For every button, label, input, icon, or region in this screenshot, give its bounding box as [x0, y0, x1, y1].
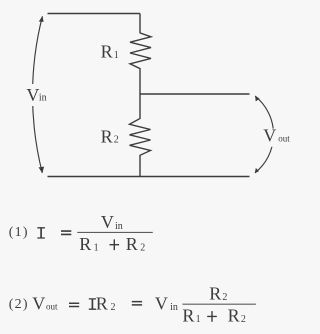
svg-text:R: R: [209, 284, 221, 304]
Vin label mask: [24, 84, 50, 106]
svg-text:2: 2: [241, 314, 246, 325]
Vout label mask: [261, 129, 293, 147]
svg-text:V: V: [101, 212, 114, 232]
svg-text:R: R: [79, 234, 91, 254]
svg-text:out: out: [46, 302, 58, 312]
svg-text:V: V: [32, 293, 45, 313]
resistor R1: [130, 14, 151, 95]
Vin arrowhead bottom: [39, 167, 45, 174]
svg-text:2: 2: [140, 242, 145, 253]
resistor R2: [130, 94, 151, 177]
eq2 equals 2: [132, 302, 142, 305]
label Vout: [263, 126, 290, 146]
eq2 equals 1: [69, 303, 79, 306]
eq2 fraction bar: [182, 303, 256, 305]
Vout arrowhead bottom: [255, 168, 259, 173]
svg-text:V: V: [155, 293, 168, 313]
equation 1: [9, 212, 153, 254]
svg-text:2: 2: [114, 135, 119, 146]
wire top: [48, 13, 141, 15]
svg-text:2: 2: [111, 302, 116, 313]
svg-text:2: 2: [222, 292, 227, 303]
svg-text:R: R: [182, 306, 194, 326]
svg-text:in: in: [170, 302, 178, 313]
label R2: [101, 126, 119, 146]
svg-text:R: R: [96, 293, 108, 313]
label R1: [101, 42, 119, 62]
svg-text:R: R: [126, 234, 138, 254]
svg-text:(2): (2): [9, 297, 29, 312]
svg-text:out: out: [278, 133, 290, 143]
svg-text:R: R: [101, 42, 113, 62]
svg-text:V: V: [263, 126, 276, 146]
svg-text:1: 1: [114, 50, 119, 61]
svg-text:in: in: [39, 93, 47, 104]
svg-text:V: V: [26, 85, 39, 105]
svg-text:1: 1: [94, 242, 99, 253]
eq2 I: [89, 299, 96, 309]
svg-text:R: R: [228, 306, 240, 326]
svg-text:(1): (1): [9, 225, 29, 240]
svg-text:in: in: [115, 221, 123, 232]
wire bottom: [48, 176, 250, 178]
svg-text:R: R: [101, 126, 113, 146]
label Vin: [26, 85, 46, 105]
equation 2: [9, 284, 256, 326]
Vin arc arrow: [33, 16, 43, 173]
svg-text:1: 1: [196, 314, 201, 325]
Vin arrowhead top: [39, 16, 44, 22]
eq1 fraction bar: [77, 231, 153, 233]
wire middle: [140, 93, 250, 95]
eq1 I: [37, 228, 45, 238]
Vout arc arrow: [255, 96, 274, 173]
Vout arrowhead top: [255, 96, 260, 102]
eq1 equals: [61, 231, 71, 234]
